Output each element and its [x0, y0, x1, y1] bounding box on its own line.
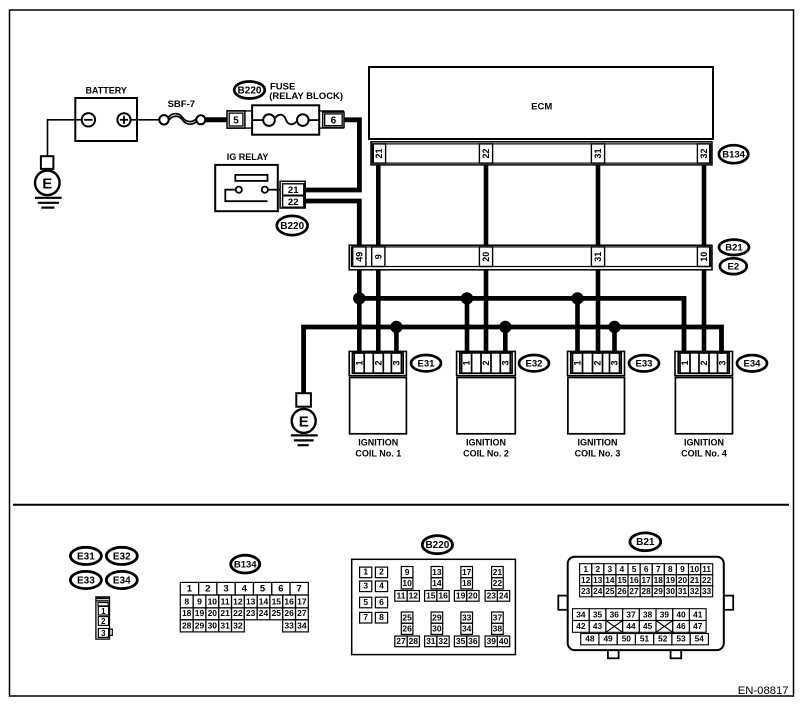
- svg-text:14: 14: [259, 596, 269, 606]
- junction node on bus2 at coil2: [500, 321, 511, 332]
- svg-text:21: 21: [288, 185, 299, 196]
- connector B220 oval (fuse): [234, 82, 265, 99]
- wire B21-9 to coil1 pin2: [376, 270, 381, 352]
- wire bus2 drop to coil3 pin3: [612, 327, 617, 352]
- svg-text:26: 26: [284, 608, 294, 618]
- svg-text:22: 22: [288, 197, 299, 208]
- svg-text:5: 5: [363, 597, 368, 607]
- svg-text:30: 30: [666, 586, 676, 596]
- svg-text:1: 1: [462, 360, 472, 365]
- svg-text:29: 29: [432, 612, 442, 622]
- svg-text:26: 26: [402, 624, 412, 634]
- wire bus2 drop to coil1 pin3: [394, 327, 399, 352]
- svg-text:22: 22: [702, 575, 712, 585]
- svg-text:E2: E2: [727, 261, 739, 272]
- svg-text:32: 32: [438, 636, 448, 646]
- svg-text:B220: B220: [238, 85, 262, 96]
- svg-text:27: 27: [297, 608, 307, 618]
- svg-text:B134: B134: [722, 149, 745, 160]
- svg-text:46: 46: [676, 621, 686, 631]
- svg-text:27: 27: [629, 586, 639, 596]
- wire battery plus to SBF-7: [131, 119, 160, 121]
- svg-text:40: 40: [676, 609, 686, 619]
- svg-text:18: 18: [182, 608, 192, 618]
- svg-text:ECM: ECM: [531, 101, 552, 112]
- B21 pinout grid pins 1-33: [580, 564, 713, 597]
- svg-text:32: 32: [699, 148, 709, 158]
- svg-text:36: 36: [468, 636, 478, 646]
- svg-text:COIL No. 4: COIL No. 4: [681, 448, 727, 458]
- svg-text:IGNITION: IGNITION: [578, 438, 618, 448]
- svg-text:24: 24: [499, 590, 509, 600]
- svg-text:31: 31: [220, 620, 230, 630]
- svg-text:IGNITION: IGNITION: [684, 438, 724, 448]
- wire B134-31 to B21-31: [596, 165, 601, 246]
- svg-text:27: 27: [396, 636, 406, 646]
- B21 pin 9: [372, 247, 385, 267]
- svg-text:5: 5: [260, 584, 266, 595]
- label FUSE (RELAY BLOCK): [269, 81, 343, 102]
- svg-text:42: 42: [576, 621, 586, 631]
- svg-text:48: 48: [585, 634, 595, 644]
- relay connector pins 21 22 (B220): [280, 181, 305, 208]
- svg-text:21: 21: [690, 575, 700, 585]
- svg-text:EN-08817: EN-08817: [738, 685, 789, 697]
- wire B134-22 to B21-20: [484, 165, 489, 246]
- connector E33 oval: [629, 355, 659, 371]
- svg-text:20: 20: [678, 575, 688, 585]
- svg-text:25: 25: [605, 586, 615, 596]
- svg-text:19: 19: [195, 608, 205, 618]
- svg-text:53: 53: [676, 634, 686, 644]
- svg-text:5: 5: [632, 564, 637, 574]
- svg-text:2: 2: [101, 617, 106, 626]
- svg-text:12: 12: [233, 596, 243, 606]
- svg-text:19: 19: [456, 590, 466, 600]
- svg-text:6: 6: [331, 115, 337, 126]
- svg-text:28: 28: [182, 620, 192, 630]
- svg-text:43: 43: [593, 621, 603, 631]
- svg-text:37: 37: [493, 612, 503, 622]
- svg-text:33: 33: [702, 586, 712, 596]
- svg-text:21: 21: [374, 148, 384, 158]
- IG relay box: [215, 165, 280, 211]
- svg-text:18: 18: [462, 578, 472, 588]
- connector strip B134 under ECM: [371, 142, 712, 165]
- svg-text:1: 1: [363, 567, 368, 577]
- svg-text:COIL No. 2: COIL No. 2: [463, 448, 509, 458]
- ignition coil No.1 connector E31: [349, 351, 406, 375]
- junction node on bus2 at coil1: [391, 321, 402, 332]
- svg-text:29: 29: [654, 586, 664, 596]
- wire B21-10 to coil4 pin2: [702, 270, 707, 352]
- ignition coil No.3 connector E33: [568, 351, 625, 375]
- svg-text:20: 20: [468, 590, 478, 600]
- svg-text:10: 10: [699, 252, 709, 262]
- svg-text:3: 3: [608, 564, 613, 574]
- svg-text:2: 2: [481, 360, 491, 365]
- svg-text:10: 10: [402, 578, 412, 588]
- wire bus1 drop to coil3 pin1: [575, 298, 580, 352]
- wire bus2 drop to coil2 pin3: [503, 327, 508, 352]
- svg-text:50: 50: [622, 634, 632, 644]
- svg-text:39: 39: [487, 636, 497, 646]
- svg-text:2: 2: [205, 584, 210, 595]
- svg-text:1: 1: [573, 360, 583, 365]
- svg-text:BATTERY: BATTERY: [85, 85, 127, 95]
- svg-text:22: 22: [233, 608, 243, 618]
- wire battery minus to ground: [48, 119, 82, 156]
- wire fuse 6 to IG relay pin 21: [305, 120, 359, 190]
- ignition coil No.4 body: [675, 378, 732, 459]
- svg-text:39: 39: [660, 609, 670, 619]
- svg-text:28: 28: [409, 636, 419, 646]
- svg-text:B21: B21: [636, 537, 655, 548]
- B134 pin 32: [697, 144, 710, 163]
- svg-text:37: 37: [626, 609, 636, 619]
- svg-text:6: 6: [644, 564, 649, 574]
- ground E (battery): [35, 156, 62, 207]
- svg-text:1: 1: [354, 360, 364, 365]
- svg-text:7: 7: [656, 564, 661, 574]
- svg-text:E31: E31: [418, 358, 436, 369]
- svg-text:3: 3: [500, 360, 510, 365]
- connector strip B21/E2: [349, 245, 712, 270]
- svg-text:3: 3: [718, 360, 728, 365]
- ignition coil No.1 body: [350, 378, 407, 459]
- svg-text:30: 30: [208, 620, 218, 630]
- svg-text:6: 6: [379, 597, 384, 607]
- svg-text:IG RELAY: IG RELAY: [227, 152, 269, 162]
- svg-text:(RELAY BLOCK): (RELAY BLOCK): [269, 91, 343, 102]
- wire B21-49 down to bus and coil1 pin1: [357, 270, 362, 352]
- svg-text:18: 18: [654, 575, 664, 585]
- svg-text:38: 38: [643, 609, 653, 619]
- section divider line: [13, 504, 789, 506]
- svg-text:6: 6: [278, 584, 283, 595]
- svg-text:16: 16: [438, 590, 448, 600]
- svg-text:E33: E33: [77, 575, 95, 586]
- ECM box: [369, 67, 713, 139]
- svg-text:1: 1: [101, 607, 106, 616]
- svg-text:10: 10: [208, 596, 218, 606]
- wire B134-21 to B21-9: [376, 165, 381, 246]
- svg-text:3: 3: [610, 360, 620, 365]
- svg-text:8: 8: [184, 596, 189, 606]
- svg-text:E31: E31: [77, 551, 95, 562]
- svg-text:31: 31: [426, 636, 436, 646]
- battery B: [75, 85, 137, 141]
- svg-text:19: 19: [666, 575, 676, 585]
- B21 pin 20: [479, 247, 492, 267]
- svg-text:SBF-7: SBF-7: [168, 99, 195, 110]
- svg-text:40: 40: [499, 636, 509, 646]
- wire bus1 drop to coil2 pin1: [465, 298, 470, 352]
- B134 connector pinout grid: [180, 582, 308, 631]
- svg-text:26: 26: [617, 586, 627, 596]
- svg-text:31: 31: [678, 586, 688, 596]
- svg-text:23: 23: [487, 590, 497, 600]
- svg-text:21: 21: [220, 608, 230, 618]
- svg-text:IGNITION: IGNITION: [466, 438, 506, 448]
- ignition coil No.4 connector E34: [675, 351, 733, 375]
- connector E34 oval (pinout): [106, 571, 137, 588]
- svg-text:34: 34: [297, 620, 307, 630]
- ignition coil No.2 body: [457, 378, 515, 459]
- svg-text:E33: E33: [636, 359, 653, 370]
- svg-text:E32: E32: [113, 551, 131, 562]
- svg-text:13: 13: [246, 596, 256, 606]
- svg-text:5: 5: [233, 116, 239, 127]
- B21 pin 10: [697, 247, 710, 267]
- svg-text:31: 31: [593, 148, 603, 158]
- svg-text:29: 29: [195, 620, 205, 630]
- connector E32 oval (pinout): [106, 547, 137, 564]
- svg-text:2: 2: [593, 360, 603, 365]
- svg-text:20: 20: [481, 252, 491, 262]
- connector B220 oval (pinout): [422, 536, 452, 554]
- connector B21 oval (pinout): [630, 533, 661, 551]
- svg-text:1: 1: [583, 564, 588, 574]
- junction node on bus1 at coil2: [461, 293, 472, 304]
- svg-text:20: 20: [208, 608, 218, 618]
- B220 connector pinout: [352, 559, 516, 654]
- connector E31 oval: [411, 355, 441, 371]
- svg-text:11: 11: [397, 590, 406, 600]
- svg-text:E: E: [42, 175, 52, 192]
- svg-text:13: 13: [432, 567, 442, 577]
- svg-text:49: 49: [355, 252, 365, 262]
- svg-text:35: 35: [456, 636, 466, 646]
- svg-text:22: 22: [481, 148, 491, 158]
- ignition coil No.3 body: [568, 378, 625, 459]
- wire SBF-7 to fuse terminal 5: [205, 117, 227, 122]
- wire B21-31 to coil3 pin2: [596, 270, 601, 352]
- B21 pinout grid pins 34-47: [573, 609, 707, 633]
- svg-text:10: 10: [690, 564, 700, 574]
- ignition coil No.2 connector E32: [457, 351, 516, 375]
- svg-text:8: 8: [668, 564, 673, 574]
- svg-text:3: 3: [101, 629, 106, 638]
- svg-text:E34: E34: [744, 359, 762, 370]
- svg-text:B21: B21: [725, 243, 743, 254]
- svg-text:47: 47: [693, 621, 703, 631]
- svg-text:B220: B220: [425, 540, 449, 551]
- fusible link SBF-7: [159, 99, 205, 125]
- connector E34 oval: [737, 355, 767, 371]
- svg-text:9: 9: [197, 596, 202, 606]
- B21 pin 31: [591, 247, 604, 267]
- svg-text:16: 16: [629, 575, 639, 585]
- svg-text:49: 49: [603, 634, 613, 644]
- connector B21 oval: [719, 240, 749, 255]
- svg-text:B134: B134: [234, 559, 257, 570]
- svg-text:E32: E32: [526, 358, 543, 369]
- svg-text:4: 4: [620, 564, 625, 574]
- svg-text:45: 45: [643, 621, 653, 631]
- svg-text:12: 12: [581, 575, 591, 585]
- svg-text:16: 16: [284, 596, 294, 606]
- svg-text:22: 22: [493, 578, 503, 588]
- svg-text:E34: E34: [113, 575, 131, 586]
- svg-text:IGNITION: IGNITION: [358, 438, 398, 448]
- svg-text:3: 3: [363, 581, 368, 591]
- svg-text:21: 21: [493, 567, 503, 577]
- wire IG relay pin 22 to B21 pin 49: [305, 201, 359, 246]
- svg-text:3: 3: [392, 360, 402, 365]
- connector B220 oval (relay): [277, 216, 308, 235]
- B134 pin 21: [372, 144, 385, 163]
- svg-text:51: 51: [640, 634, 650, 644]
- wire B134-32 to B21-10: [702, 165, 707, 246]
- svg-text:2: 2: [595, 564, 600, 574]
- svg-text:32: 32: [233, 620, 243, 630]
- svg-text:24: 24: [259, 608, 269, 618]
- ground bus wire to coil pins 3: [304, 327, 722, 393]
- svg-text:B220: B220: [280, 221, 304, 232]
- junction node on bus1 at coil1: [354, 293, 365, 304]
- svg-text:44: 44: [626, 621, 636, 631]
- connector B134 oval (pinout): [231, 555, 260, 573]
- svg-text:15: 15: [426, 590, 436, 600]
- svg-text:2: 2: [699, 360, 709, 365]
- svg-text:17: 17: [642, 575, 652, 585]
- svg-text:COIL No. 1: COIL No. 1: [355, 448, 401, 458]
- svg-text:COIL No. 3: COIL No. 3: [575, 448, 621, 458]
- svg-text:1: 1: [680, 360, 690, 365]
- connector pin 6 (B220): [319, 111, 344, 128]
- svg-text:15: 15: [272, 596, 282, 606]
- junction node on bus2 at coil3: [609, 321, 620, 332]
- svg-text:4: 4: [379, 581, 384, 591]
- svg-text:8: 8: [379, 612, 384, 622]
- svg-text:11: 11: [221, 596, 230, 606]
- B134 pin 22: [479, 144, 492, 163]
- svg-text:31: 31: [593, 252, 603, 262]
- svg-text:52: 52: [658, 634, 668, 644]
- svg-text:23: 23: [581, 586, 591, 596]
- B134 pin 31: [591, 144, 604, 163]
- svg-text:36: 36: [610, 609, 620, 619]
- svg-text:14: 14: [605, 575, 615, 585]
- svg-text:13: 13: [593, 575, 603, 585]
- svg-text:7: 7: [297, 584, 302, 595]
- svg-text:41: 41: [693, 609, 703, 619]
- connector E33 oval (pinout): [70, 571, 101, 588]
- svg-text:34: 34: [576, 609, 586, 619]
- svg-text:17: 17: [297, 596, 307, 606]
- svg-text:54: 54: [695, 634, 705, 644]
- B21 pinout grid pins 48-54: [581, 634, 709, 645]
- svg-text:9: 9: [680, 564, 685, 574]
- svg-text:9: 9: [405, 567, 410, 577]
- svg-text:9: 9: [374, 254, 384, 259]
- svg-text:15: 15: [617, 575, 627, 585]
- svg-text:E: E: [299, 413, 309, 430]
- fuse (relay block) body: [252, 105, 319, 134]
- connector E32 oval: [519, 355, 549, 371]
- svg-text:4: 4: [242, 584, 248, 595]
- svg-text:7: 7: [363, 612, 368, 622]
- svg-text:11: 11: [702, 564, 711, 574]
- B21 connector pinout body: [558, 557, 733, 659]
- svg-text:2: 2: [379, 567, 384, 577]
- svg-text:1: 1: [187, 584, 193, 595]
- connector E2 oval: [720, 258, 747, 274]
- svg-text:33: 33: [462, 612, 472, 622]
- E31-E34 coil connector pinout (pins 1 2 3): [96, 597, 112, 639]
- svg-text:32: 32: [690, 586, 700, 596]
- junction node on bus1 at coil3: [572, 293, 583, 304]
- svg-text:2: 2: [373, 360, 383, 365]
- svg-text:35: 35: [593, 609, 603, 619]
- connector pin 5 (B220): [227, 111, 252, 128]
- svg-text:33: 33: [284, 620, 294, 630]
- svg-text:34: 34: [462, 624, 472, 634]
- svg-text:17: 17: [462, 567, 472, 577]
- svg-text:38: 38: [493, 624, 503, 634]
- svg-text:24: 24: [593, 586, 603, 596]
- connector E31 oval (pinout): [70, 547, 101, 564]
- wire B21-20 to coil2 pin2: [484, 270, 489, 352]
- svg-text:12: 12: [409, 590, 419, 600]
- svg-text:28: 28: [642, 586, 652, 596]
- svg-text:25: 25: [402, 612, 412, 622]
- power bus wire to coil pins 1: [359, 298, 684, 352]
- svg-text:23: 23: [246, 608, 256, 618]
- svg-text:25: 25: [272, 608, 282, 618]
- svg-text:3: 3: [223, 584, 228, 595]
- svg-text:30: 30: [432, 624, 442, 634]
- B21 pin 49: [353, 247, 366, 267]
- svg-text:14: 14: [432, 578, 442, 588]
- ground E (coils): [291, 393, 318, 445]
- connector B134 oval: [719, 145, 748, 163]
